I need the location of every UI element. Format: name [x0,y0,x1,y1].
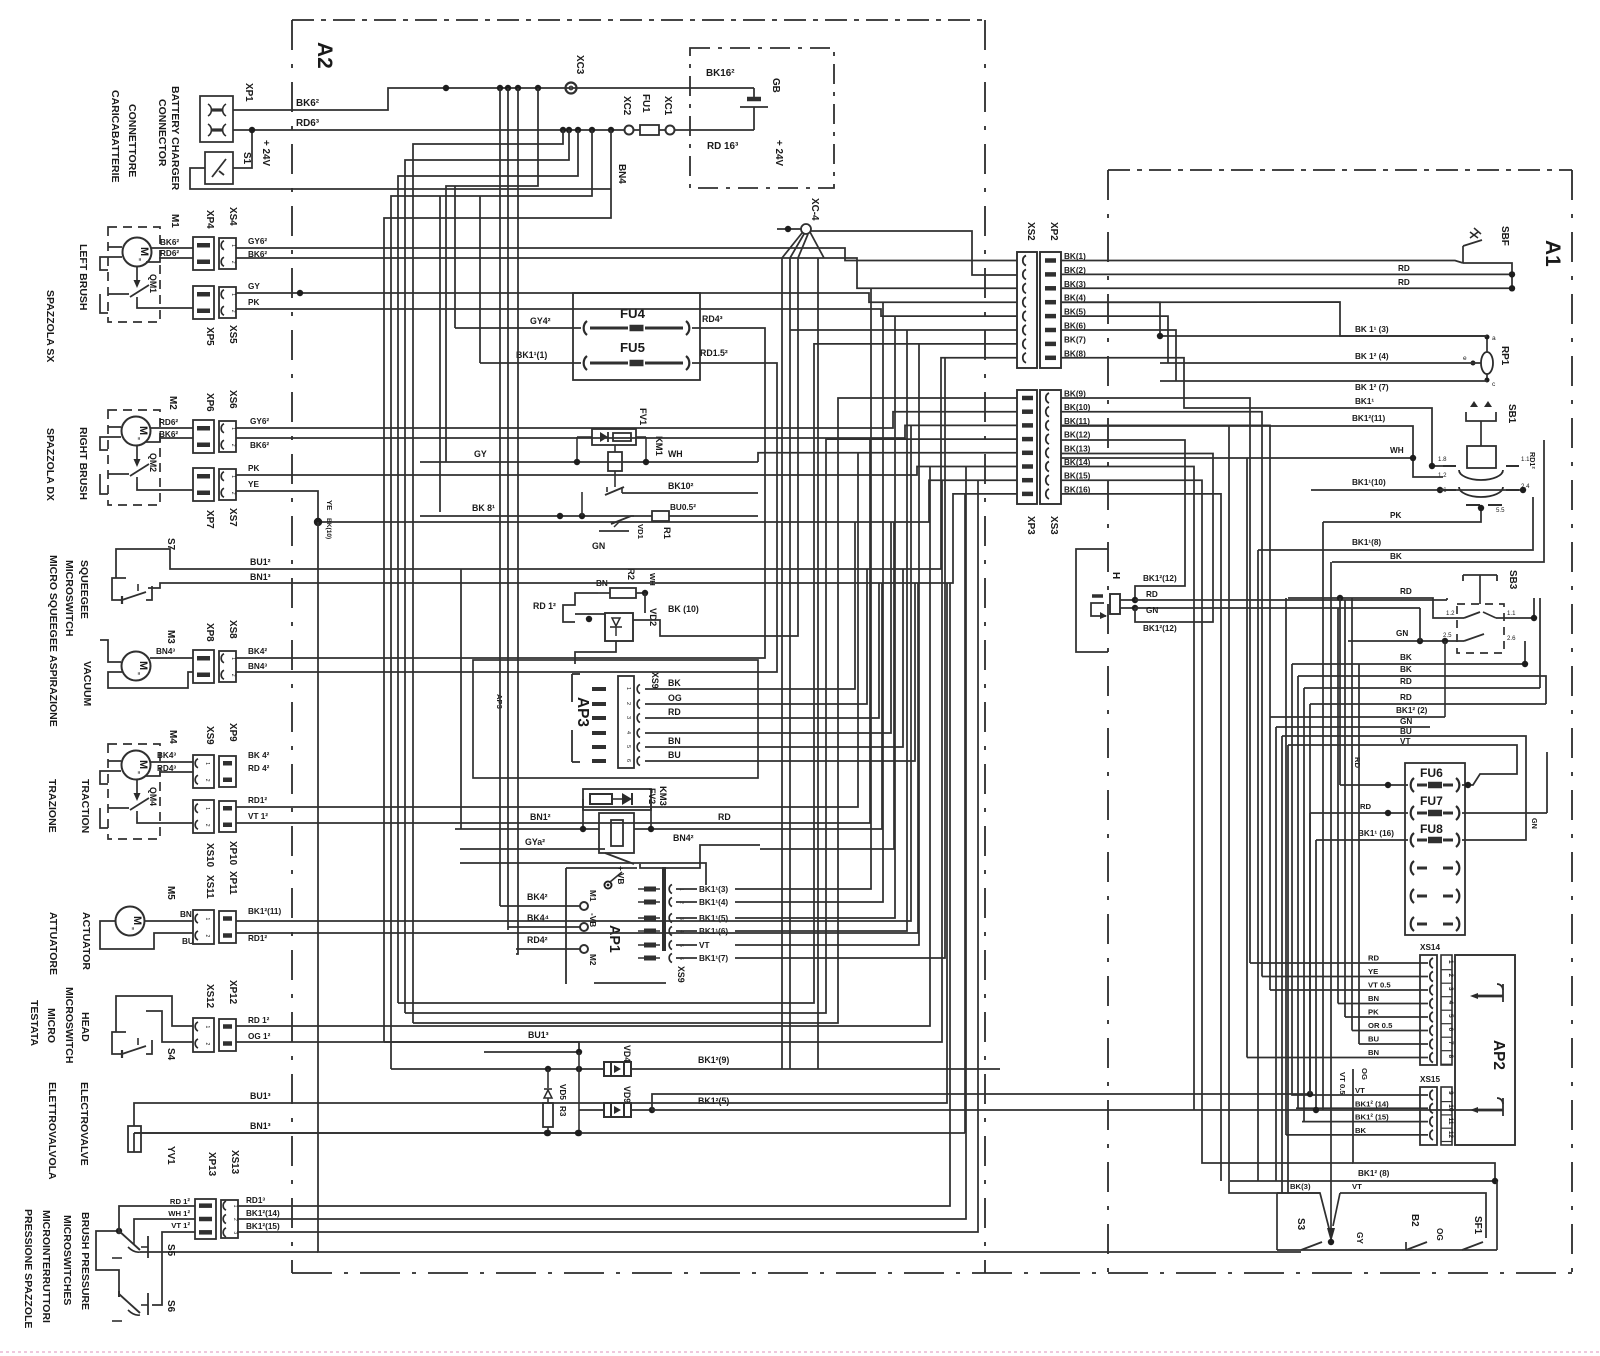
switch SB3 actuator [1463,575,1497,604]
svg-text:XC-4: XC-4 [809,198,820,221]
svg-text:XS13: XS13 [229,1150,240,1175]
wire XS13 outputs [237,467,978,1233]
svg-text:BK1¹(3): BK1¹(3) [699,885,728,894]
svg-text:BK (10): BK (10) [668,604,699,614]
svg-text:BN1³: BN1³ [250,1121,271,1131]
svg-text:2: 2 [230,674,236,677]
frame A1 dashed border [1108,170,1572,1273]
svg-text:BK1²(9): BK1²(9) [698,1055,729,1065]
wire SB3 right contact [1496,598,1534,618]
svg-text:H: H [1110,572,1121,579]
wire H BK1(12) down [1061,454,1213,623]
svg-text:XS10: XS10 [204,843,215,868]
wires AP1 pins right [676,885,728,963]
fuse-diode FV1 [592,429,636,445]
wire BK SB3 a [1292,641,1525,664]
svg-text:BK 4²: BK 4² [248,751,270,760]
svg-text:QM1: QM1 [148,274,158,293]
wire VD4 left riser [391,1068,440,1070]
svg-text:ELETTROVALVOLA: ELETTROVALVOLA [46,1082,58,1180]
svg-text:XP7: XP7 [204,510,215,529]
resistor R2 [598,588,648,598]
svg-text:RD: RD [718,812,731,822]
svg-text:RD: RD [1360,802,1372,811]
svg-text:XP11: XP11 [227,871,238,895]
wire RD6 from XP1 [233,129,563,131]
svg-text:1.2: 1.2 [1438,472,1447,479]
pink scan artifact line at bottom [0,1351,1600,1353]
svg-text:BU: BU [668,750,681,760]
wire GY WH rail [420,461,758,463]
wire SBF down [1463,263,1512,291]
wire XS14 lower feeds [1247,458,1359,1058]
svg-text:VD5: VD5 [558,1084,567,1100]
svg-text:WH: WH [668,449,683,459]
svg-text:BK1¹: BK1¹ [1355,397,1374,406]
wire FU6 out [1462,752,1517,785]
wire S7 lower BN1 [148,583,580,588]
microswitch S7 [112,578,152,604]
svg-text:GY: GY [248,282,260,291]
svg-text:GY6²: GY6² [248,237,267,246]
svg-text:LEFT BRUSH: LEFT BRUSH [77,244,89,311]
wire S1 lower loop [190,168,611,189]
node XC1 [666,126,675,135]
svg-text:BU: BU [1400,727,1412,736]
switch SB1 actuator [1466,401,1496,468]
terminal M1 AP1 [580,902,588,910]
wire RD A1 2 [1061,287,1512,289]
svg-text:1: 1 [230,657,236,660]
wire QM4 to XS10 [137,817,193,823]
wire FU6 feed [1339,598,1341,785]
wire AP1 top feed [460,863,706,885]
svg-text:MICRO SQUEEGEE: MICRO SQUEEGEE [47,555,59,652]
svg-text:BU1²: BU1² [250,557,271,567]
svg-text:BK(3): BK(3) [1290,1182,1311,1191]
svg-text:BK: BK [1390,552,1402,561]
svg-text:XP10: XP10 [227,841,238,866]
junction bottom bus dots [544,1130,550,1136]
connector XS11 [193,910,214,944]
wire BK8 drop [439,196,441,512]
svg-text:1: 1 [230,244,236,247]
svg-text:XS4: XS4 [227,207,238,226]
svg-text:RD4²: RD4² [527,935,548,945]
svg-text:VT: VT [1400,737,1410,746]
svg-text:2: 2 [1447,974,1454,978]
svg-text:XS7: XS7 [227,508,238,527]
relay coil KM1 [577,437,646,487]
frame A2 dashed border [292,20,985,1273]
svg-text:RD 1²: RD 1² [533,601,556,611]
wire M3 to XP8 [150,657,193,659]
connector XS9L [193,755,214,788]
svg-text:BK6²: BK6² [160,238,179,247]
wire PK SB1 [1323,508,1481,522]
svg-text:BK1²(12): BK1²(12) [1143,624,1177,633]
motor M5 [116,907,145,936]
labels BK(9)-BK(16) [1064,390,1091,495]
connector XS7 [219,469,236,500]
resistor R3 vertical [543,1103,553,1127]
switch QM4 [130,779,149,817]
wire BK8 to SB1 [1061,358,1286,408]
svg-text:BK1¹(1): BK1¹(1) [516,350,547,360]
wire through VD4 [440,1068,604,1070]
wire BK4 to RP1 [1061,302,1160,336]
wire BK SB3 b [1298,675,1534,677]
svg-text:XP5: XP5 [204,327,215,346]
svg-text:AP3: AP3 [574,697,591,727]
wire GY riser mid [460,569,462,829]
wire QM2 to XP7 [137,483,193,490]
svg-text:ASPIRAZIONE: ASPIRAZIONE [47,655,59,727]
svg-text:BK(10): BK(10) [325,518,332,539]
svg-text:BN: BN [668,736,681,746]
svg-text:XS6: XS6 [227,390,238,409]
svg-text:R1: R1 [662,527,673,539]
svg-text:BK1²(5): BK1²(5) [698,1096,729,1106]
svg-text:RD1²: RD1² [248,934,267,943]
connector XP5 [193,286,214,319]
wire BK1(11) SB1 [1061,426,1443,477]
spare fuses [1411,861,1414,875]
svg-text:B2: B2 [1409,1214,1420,1227]
connector XS10 [193,800,214,833]
svg-text:SB1: SB1 [1506,404,1517,424]
wire BK15 down [1061,480,1353,1163]
svg-text:1: 1 [230,475,236,478]
switch S3 [1301,1242,1322,1250]
svg-text:RD 16³: RD 16³ [707,141,739,152]
svg-text:SQUEEGEE: SQUEEGEE [78,560,90,619]
svg-text:RP1: RP1 [1499,346,1510,366]
svg-text:5.5: 5.5 [1496,507,1505,514]
svg-text:GN: GN [592,541,605,551]
wire BK1 SB1 [1286,408,1443,466]
svg-text:MICROINTERRUTTORI: MICROINTERRUTTORI [40,1210,52,1323]
svg-text:BN1³: BN1³ [250,572,271,582]
SB1 contacts [1438,456,1530,514]
svg-text:XC3: XC3 [574,55,585,75]
fuse FU8 [1411,833,1414,847]
block AP1 brackets [566,867,666,984]
svg-text:GN: GN [1530,818,1539,829]
svg-text:BATTERY CHARGER: BATTERY CHARGER [169,86,181,191]
svg-text:9: 9 [1447,1091,1454,1095]
svg-text:5: 5 [1447,1014,1454,1018]
svg-text:XS9: XS9 [676,966,686,983]
wire QM1 to XP5 [137,303,193,308]
AP2 key symbol 1 [1470,984,1503,1002]
svg-text:GN: GN [1396,629,1408,638]
wire BK1-8 drop [1257,550,1259,1181]
connector XS15 [1420,1087,1437,1145]
svg-text:S5: S5 [165,1244,176,1257]
svg-text:5: 5 [625,745,631,748]
M2 dashed enclosure [108,410,160,505]
wire XC4 fan [777,226,824,258]
wire BK6 from XP1 to top rail [233,88,446,110]
switch QM1 [130,266,149,303]
svg-text:1: 1 [204,1026,210,1029]
wire S4 risers [236,467,930,1027]
wire S4 lower [146,1011,193,1042]
svg-text:=: = [136,258,142,261]
wire XP13 pin1 to S5 [119,1206,195,1228]
svg-text:=: = [135,437,141,440]
svg-text:BN: BN [1368,1048,1380,1057]
wire RD SB3 b [1304,687,1540,689]
wire XC4 fan verticals [700,258,818,1069]
svg-text:BK: BK [1355,1126,1367,1135]
svg-text:MICROSWITCH: MICROSWITCH [63,987,75,1063]
wire M5 to XS11 [144,920,193,922]
svg-text:XP2: XP2 [1048,222,1059,241]
wire YE to BK15 [236,480,1017,522]
connector XS2 [1017,252,1037,368]
svg-text:RD: RD [1146,590,1158,599]
wire KM3 BN4 riser [760,522,894,849]
svg-text:XS5: XS5 [227,325,238,344]
wire out FU5 [692,362,742,364]
svg-text:M: M [138,247,150,256]
svg-text:AP1: AP1 [606,925,622,953]
svg-text:=: = [135,672,141,675]
relay contact KM3 [605,853,634,864]
svg-text:RD6²: RD6² [160,249,179,258]
wire M1 left loop [108,246,122,248]
svg-text:S6: S6 [165,1300,176,1313]
wire RD A1 1 [1061,273,1512,275]
wire BK6 to RP1 c [1061,330,1176,381]
svg-text:BK6²: BK6² [250,441,269,450]
svg-text:XS3: XS3 [1048,516,1059,535]
svg-text:BK1²(11): BK1²(11) [1352,414,1385,423]
connector XS15 numbers [1441,1087,1454,1145]
svg-text:XP12: XP12 [227,980,238,1005]
svg-text:BK1¹(8): BK1¹(8) [1352,538,1381,547]
wire BK9 chain [413,398,1017,1023]
wire YV1 bottom BN1 [133,1133,135,1152]
node XC2 [625,126,634,135]
AP2 key symbol 2 [1470,1098,1503,1116]
svg-text:VT 0.5: VT 0.5 [1338,1072,1347,1095]
wires XS15 [1286,1086,1428,1135]
wire VD2 out right [633,620,700,636]
connector XP10 [219,801,236,832]
connector XP7 [193,468,214,501]
svg-text:XS15: XS15 [1420,1075,1440,1084]
wire R2 left drop [563,593,598,622]
svg-text:BK(7): BK(7) [1064,335,1086,344]
svg-text:BK1² (15): BK1² (15) [1355,1113,1389,1122]
svg-text:BK: BK [668,678,681,688]
svg-text:RD: RD [1398,278,1410,287]
svg-text:VD4: VD4 [622,1045,632,1062]
svg-text:BN: BN [1368,994,1380,1003]
wire BN1 KM3 [455,828,599,830]
wire BK1(3) RP1 [1160,335,1487,337]
wire M5 risers [236,425,911,921]
svg-text:RD1²: RD1² [1528,452,1537,469]
svg-text:QM2: QM2 [148,453,158,472]
connector XS13 [221,1200,238,1238]
svg-text:XP9: XP9 [227,723,238,742]
connector XS12 [193,1018,214,1052]
svg-text:SPAZZOLA DX: SPAZZOLA DX [44,428,56,501]
wire verticals from top rail [446,88,538,954]
svg-text:BK: BK [1400,665,1412,674]
connector XS4 [219,238,236,269]
svg-text:2: 2 [204,779,210,782]
connector XP6 [193,420,214,453]
wire KM3 right RD [634,828,760,830]
wire BK12 chain [405,439,1017,1013]
svg-text:XP13: XP13 [206,1152,217,1177]
svg-text:VT: VT [699,941,709,950]
svg-text:ATTUATORE: ATTUATORE [47,912,59,975]
wire WH KM1 to BK13 [758,453,1017,462]
svg-text:YE: YE [325,500,334,510]
svg-text:PK: PK [248,298,259,307]
svg-text:XP3: XP3 [1025,516,1036,535]
svg-text:BK6²: BK6² [296,98,320,109]
fuse block FU6-FU8 [1405,763,1465,935]
svg-text:+ 24V: + 24V [260,140,271,166]
svg-text:M: M [131,916,143,925]
wire SB3 vertical drop [1444,641,1446,717]
wire RP1 wiper [1160,362,1481,364]
junction GY [297,290,303,296]
svg-text:FV1: FV1 [638,408,649,425]
svg-text:VD2: VD2 [648,608,659,626]
labels BK(1)-BK(8) [1064,252,1086,358]
svg-text:1: 1 [204,762,210,765]
connector XS9 AP3 [618,676,640,768]
wire S7 BN1 to strip [580,494,1017,583]
relay coil KM3 [583,799,651,853]
wire S7 upper BU1 [116,549,580,578]
fuse block FU4 FU5 box [573,293,700,380]
motor M3 [122,652,151,681]
svg-text:RD4³: RD4³ [702,314,723,324]
block AP3 brackets [572,674,606,762]
svg-text:3: 3 [625,716,631,719]
svg-text:1: 1 [204,918,210,921]
svg-text:BRUSH PRESSURE: BRUSH PRESSURE [79,1212,91,1310]
M1 dashed enclosure [108,227,160,322]
svg-text:RD: RD [1368,954,1380,963]
svg-text:11: 11 [1447,1118,1454,1125]
svg-text:VT: VT [1355,1086,1365,1095]
wire M4 to XS9L [150,761,193,763]
svg-text:XS9: XS9 [650,672,660,689]
electrovalve YV1 [128,1126,141,1152]
connector XP13 [195,1199,216,1239]
svg-text:RD: RD [1400,587,1412,596]
connector XS5 [219,287,236,318]
svg-text:BK4³: BK4³ [157,751,176,760]
connector XP1 [200,96,233,142]
switch S5 [112,1228,148,1258]
wire M2 left loop [108,426,121,428]
svg-text:XP4: XP4 [204,210,215,229]
svg-text:RD1.5²: RD1.5² [700,348,728,358]
svg-text:OG: OG [668,693,682,703]
svg-text:=: = [135,771,141,774]
connector XS6 [219,421,236,452]
svg-text:BK 8¹: BK 8¹ [472,503,495,513]
fuse FU6 [1411,778,1414,792]
fuse FU1 [633,129,640,131]
svg-text:VT: VT [1352,1182,1362,1191]
svg-text:FU5: FU5 [620,340,645,355]
wire stub 1052 [484,1051,579,1053]
battery GB dashed box [690,48,834,188]
wire M2 to XP6 [150,427,193,429]
svg-text:RD: RD [1353,757,1362,769]
svg-text:BU: BU [1368,1035,1380,1044]
svg-text:BK1²(12): BK1²(12) [1143,574,1177,583]
svg-text:VT 0.5: VT 0.5 [1368,981,1391,990]
svg-text:VD1: VD1 [636,524,645,540]
svg-text:XS2: XS2 [1025,222,1036,241]
connector XP12 [219,1019,236,1051]
wire M3 loop [100,640,121,662]
box S3 B2 SF1 [1277,1181,1497,1250]
connector XP3 [1017,390,1037,504]
svg-text:RD6²: RD6² [159,418,178,427]
junction R2 out [642,590,648,596]
wire SBF top [1061,261,1463,264]
wire out FU4 [692,327,755,329]
svg-text:PK: PK [1390,511,1401,520]
svg-text:BN4²: BN4² [673,833,694,843]
connector XP4 [193,237,214,270]
svg-text:S1: S1 [241,152,252,165]
svg-text:M2: M2 [588,954,597,966]
svg-text:12: 12 [1447,1131,1454,1139]
node XC4 [801,224,811,234]
wire RP1 c [1160,380,1487,382]
diode VD4 [604,1062,631,1076]
connector XP11 [219,911,236,943]
svg-text:M: M [137,426,149,435]
svg-text:MICROSWITCHES: MICROSWITCHES [61,1215,73,1305]
connector XP2 [1040,252,1061,368]
svg-text:M: M [137,760,149,769]
svg-text:2: 2 [230,444,236,447]
SB3 contacts [1443,610,1516,642]
switch S1 [205,152,233,184]
svg-text:SBF: SBF [1499,226,1510,246]
terminal -VB AP1 [580,923,588,931]
wire XC4 to XS2 pin2 [810,231,1017,275]
svg-text:FU6: FU6 [1420,766,1443,780]
svg-text:FU7: FU7 [1420,794,1443,808]
svg-text:BK(13): BK(13) [1064,444,1091,453]
wire XC1 to battery [674,129,754,131]
wire H GN [1120,607,1135,609]
svg-text:BK1²(14): BK1²(14) [246,1209,280,1218]
svg-text:1: 1 [1447,960,1454,964]
wire S1 to RD6 rail [233,130,252,168]
svg-text:XS9: XS9 [204,726,215,745]
svg-text:2: 2 [230,261,236,264]
wire BU1 bottom [440,1042,579,1052]
